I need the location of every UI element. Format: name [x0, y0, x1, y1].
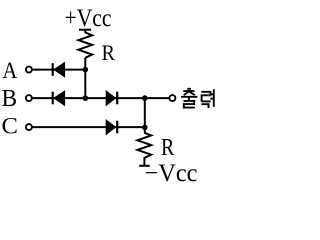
label R (top resistor value) [102, 40, 116, 65]
junction: row B and R1 lead [83, 95, 89, 101]
svg-text:R: R [102, 40, 116, 65]
label A [3, 58, 18, 83]
label C [2, 114, 18, 140]
junction: row C and output branch [142, 125, 148, 131]
wire row B (input to output node) [32, 97, 169, 99]
output terminal [169, 95, 175, 101]
svg-text:B: B [2, 85, 18, 112]
wire: vertical output branch from row B to row C [144, 98, 146, 127]
label +Vcc [65, 5, 112, 32]
label R (bottom resistor value) [161, 135, 174, 161]
wire: vertical from R1 bottom through node A row to node B row [84, 58, 86, 98]
svg-text:+Vcc: +Vcc [65, 5, 112, 32]
wire row A [32, 69, 85, 71]
input terminal C [26, 124, 32, 130]
wire row C [32, 126, 145, 128]
diode DA (anode at node, cathode to input A) [53, 63, 65, 77]
label B [2, 85, 18, 112]
label 출력 (output) [181, 89, 214, 108]
junction: row A and R1 lead [83, 67, 89, 73]
resistor R1 (pull-up to +Vcc) [78, 30, 92, 58]
svg-text:R: R [161, 135, 174, 161]
diode DO1 (series diode on row B, pointing to output) [106, 91, 117, 105]
input terminal B [26, 95, 32, 101]
svg-text:C: C [2, 114, 18, 140]
input terminal A [26, 67, 32, 73]
resistor R2 (pull-down to -Vcc) [137, 133, 151, 166]
diode DB (anode at node, cathode to input B) [53, 91, 65, 105]
junction: row B and output pull-down branch [142, 95, 148, 101]
label -Vcc [145, 160, 198, 187]
diode DO2 (series diode on row C, pointing to output branch) [106, 120, 117, 134]
wire: lead from row C junction to R2 [144, 127, 146, 133]
svg-text:−Vcc: −Vcc [145, 160, 198, 185]
svg-text:A: A [3, 58, 18, 83]
